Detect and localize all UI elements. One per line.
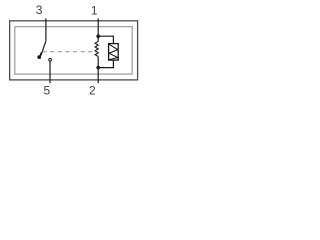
armature box bbox=[109, 44, 119, 61]
wire coil bottom to node B bbox=[97, 57, 99, 68]
wire armature box to node B bbox=[98, 60, 113, 68]
svg-text:1: 1 bbox=[91, 3, 98, 17]
svg-text:2: 2 bbox=[89, 83, 96, 97]
node A junction dot (top) bbox=[96, 34, 100, 38]
wire node A to coil top bbox=[97, 36, 99, 41]
svg-text:3: 3 bbox=[36, 3, 43, 17]
pin 5 fixed contact circle bbox=[49, 58, 52, 61]
coil L1 zigzag bbox=[95, 41, 98, 56]
armature box zigzag bbox=[109, 44, 118, 59]
pin 1 wire bbox=[97, 18, 99, 36]
pin 2 wire bbox=[97, 68, 99, 84]
pin 5 wire bbox=[49, 61, 51, 83]
wire node A to armature box bbox=[98, 36, 113, 43]
relay K1 outer body box bbox=[10, 21, 138, 80]
switch blade arrowhead bbox=[39, 52, 42, 56]
relay K1 inner body box bbox=[15, 27, 132, 75]
svg-text:5: 5 bbox=[44, 84, 51, 98]
switch blade (movable contact) bbox=[41, 41, 46, 56]
switch blade tip dot bbox=[37, 55, 41, 59]
mechanical link dashed line bbox=[43, 51, 93, 53]
node B junction dot (bottom) bbox=[96, 66, 100, 70]
pin 3 wire bbox=[45, 18, 47, 40]
